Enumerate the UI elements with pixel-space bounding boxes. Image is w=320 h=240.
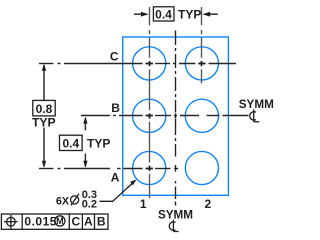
centerline row B — [81, 115, 249, 117]
dimension 0.4 TYP top line left — [134, 13, 143, 15]
centerline row C — [39, 63, 236, 65]
centerline symbol bottom — [169, 220, 178, 232]
arrow top right — [202, 12, 210, 17]
svg-text:0.8: 0.8 — [36, 102, 53, 116]
land pattern outline — [123, 37, 229, 195]
centerline symbol right — [250, 109, 259, 122]
pad B1 — [133, 99, 166, 132]
dimension 0.4 TYP top line right — [210, 13, 218, 15]
svg-text:SYMM: SYMM — [239, 98, 274, 111]
diameter symbol — [71, 194, 79, 206]
dimension box 0.4 left — [60, 135, 83, 150]
svg-text:A: A — [84, 215, 93, 229]
dimension box 0.8 — [33, 100, 55, 116]
leader line 6X — [100, 184, 133, 202]
symmetry centerline vertical — [175, 31, 177, 206]
leader arrow — [130, 179, 137, 185]
pad C1 — [133, 47, 166, 80]
svg-text:2: 2 — [204, 197, 211, 211]
svg-text:B: B — [97, 215, 106, 229]
dimension 0.4 left line — [84, 118, 86, 167]
svg-text:C: C — [71, 215, 80, 229]
arrow 0.4 down — [83, 161, 87, 168]
center cross pad A1 — [146, 166, 153, 171]
centerline row A — [39, 168, 178, 170]
cross at symm row B — [175, 113, 177, 118]
pad B2 — [185, 99, 218, 132]
arrow 0.8 down — [42, 161, 46, 168]
svg-text:M: M — [56, 216, 64, 226]
svg-text:C: C — [110, 50, 119, 64]
dimension box 0.4 top — [153, 7, 174, 21]
svg-text:SYMM: SYMM — [158, 209, 193, 222]
arrow top left — [141, 12, 149, 17]
svg-text:0.015: 0.015 — [24, 215, 57, 229]
arrow 0.4 up — [83, 117, 87, 124]
svg-text:6X: 6X — [56, 196, 70, 208]
svg-text:0.2: 0.2 — [82, 199, 97, 211]
feature control frame — [1, 214, 108, 229]
modifier M circled — [55, 216, 65, 226]
svg-text:1: 1 — [140, 197, 147, 211]
svg-text:0.4: 0.4 — [62, 137, 79, 151]
centerline column 2 — [201, 7, 203, 84]
svg-text:0.4: 0.4 — [155, 7, 172, 21]
svg-text:TYP: TYP — [87, 136, 110, 150]
center cross pad B1 — [146, 113, 153, 118]
pad A1 — [133, 151, 166, 184]
center cross pad C2 — [198, 61, 205, 66]
svg-text:TYP: TYP — [32, 115, 56, 129]
svg-text:A: A — [111, 170, 120, 184]
center cross pad C1 — [146, 61, 153, 66]
pad A2 — [185, 151, 218, 184]
dimension 0.8 line — [43, 65, 45, 167]
svg-text:TYP: TYP — [178, 8, 201, 22]
arrow 0.8 up — [42, 64, 46, 71]
centerline column 1 — [149, 7, 151, 198]
pad C2 — [185, 47, 218, 80]
svg-text:B: B — [111, 101, 120, 115]
position symbol — [4, 215, 18, 229]
